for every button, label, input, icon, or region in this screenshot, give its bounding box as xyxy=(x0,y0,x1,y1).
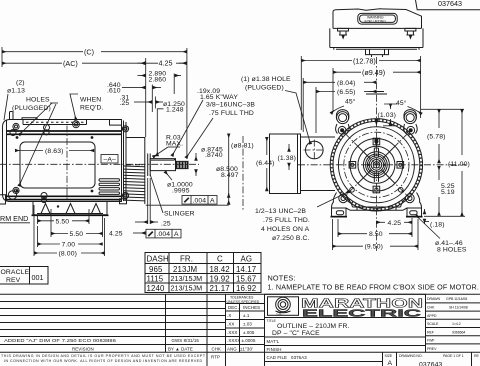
svg-text:THIS DRAWING IN DESIGN AND DET: THIS DRAWING IN DESIGN AND DETAIL IS OUR… xyxy=(1,354,206,358)
svg-text:(2): (2) xyxy=(16,80,25,87)
conduit box upper outline xyxy=(333,9,422,29)
svg-text:.004: .004 xyxy=(157,231,171,238)
037643 corner box xyxy=(416,0,480,10)
svg-text:IN CONNECTION WITH OUR WORK. A: IN CONNECTION WITH OUR WORK. ALL RIGHTS … xyxy=(4,359,203,363)
-A- datum xyxy=(101,155,118,164)
svg-text:1.248: 1.248 xyxy=(166,106,184,113)
svg-text:.X: .X xyxy=(227,313,231,318)
ext line shaft end xyxy=(186,48,188,158)
svg-text:SH 11/14/08: SH 11/14/08 xyxy=(449,306,468,310)
upper dark band xyxy=(7,130,122,132)
top step xyxy=(22,118,37,120)
(5.78) xyxy=(421,108,464,110)
(6.55) xyxy=(316,91,335,93)
svg-text:±1°30': ±1°30' xyxy=(240,347,253,352)
svg-text:FINISH: FINISH xyxy=(267,347,282,352)
svg-text:213/15JM: 213/15JM xyxy=(171,284,203,293)
svg-text:MAX.: MAX. xyxy=(166,141,183,148)
(9.49) xyxy=(333,71,361,73)
svg-text:45°: 45° xyxy=(396,99,407,107)
svg-text:.25: .25 xyxy=(161,221,171,228)
svg-text:15.67: 15.67 xyxy=(236,275,256,284)
revision rows xyxy=(0,302,226,345)
svg-text:±.03: ±.03 xyxy=(243,322,252,327)
svg-text:(11.00): (11.00) xyxy=(448,161,470,168)
svg-text:HOLES: HOLES xyxy=(26,97,50,104)
vent slots xyxy=(99,179,120,181)
oracle rev box xyxy=(0,267,48,285)
svg-text:2.860: 2.860 xyxy=(149,77,167,84)
svg-text:9366664: 9366664 xyxy=(452,330,465,334)
svg-text:ORACLE: ORACLE xyxy=(1,269,30,276)
dim .640/.610 xyxy=(122,87,137,89)
ear bottom-right xyxy=(405,194,414,203)
tapped hole squares xyxy=(349,138,404,193)
(8.04) xyxy=(303,81,335,83)
ear bottom-left xyxy=(339,194,348,203)
outer circle xyxy=(333,121,420,208)
4.25 xyxy=(376,221,385,223)
svg-text:.75 FULL THD: .75 FULL THD xyxy=(209,110,254,117)
svg-text:±.005: ±.005 xyxy=(243,330,255,335)
svg-text:1.65 K"WAY: 1.65 K"WAY xyxy=(200,94,238,101)
svg-text:NOTES:: NOTES: xyxy=(268,274,296,283)
center vertical arrowheads xyxy=(374,119,378,127)
svg-text:(6.55): (6.55) xyxy=(337,89,355,96)
8.50 xyxy=(338,233,367,235)
feature frame 2 xyxy=(146,229,181,238)
svg-text:4 HOLES ON A: 4 HOLES ON A xyxy=(261,226,310,233)
svg-text:CHK: CHK xyxy=(212,347,222,352)
title rows xyxy=(265,318,426,346)
keyway lines on shaft xyxy=(151,159,175,161)
svg-text:C: C xyxy=(217,255,223,264)
ear top-left xyxy=(337,112,349,124)
(9.50) xyxy=(333,245,364,247)
keyway slot top xyxy=(374,148,378,157)
svg-text:A: A xyxy=(388,360,393,366)
svg-text:3/8–16UNC–3B: 3/8–16UNC–3B xyxy=(206,102,255,109)
svg-text:45°: 45° xyxy=(345,98,356,106)
bolt top-right xyxy=(122,126,128,132)
svg-text:.75 FULL THD.: .75 FULL THD. xyxy=(263,217,310,224)
svg-text:5.50: 5.50 xyxy=(56,218,70,225)
svg-text:19.92: 19.92 xyxy=(210,275,230,284)
(1.38) xyxy=(288,144,290,152)
serration ring xyxy=(332,120,422,210)
ext left edge xyxy=(1,47,3,67)
center cross tiny xyxy=(373,161,380,168)
svg-text:.8740: .8740 xyxy=(205,152,223,159)
shaft end xyxy=(187,161,189,168)
top pad xyxy=(366,92,387,95)
svg-text:DP – "C" FACE: DP – "C" FACE xyxy=(272,330,320,337)
svg-text:965: 965 xyxy=(149,265,163,274)
bolt right xyxy=(405,28,416,35)
svg-text:DEC.: DEC. xyxy=(228,305,239,310)
svg-text:GWS 8/31/15: GWS 8/31/15 xyxy=(172,338,200,343)
svg-text:(1.03): (1.03) xyxy=(378,112,396,119)
(8.63) dim xyxy=(15,150,43,152)
foot triangles xyxy=(41,204,50,214)
svg-text:(PLUGGED): (PLUGGED) xyxy=(12,105,51,112)
5.25/5.19 xyxy=(438,166,440,180)
svg-text:(6.44): (6.44) xyxy=(256,160,274,167)
svg-text:(8.63): (8.63) xyxy=(45,148,63,155)
bolt bottom-left xyxy=(13,187,19,193)
dim 4.25 shaft ext xyxy=(138,62,146,64)
base plate xyxy=(33,202,107,215)
svg-text:A: A xyxy=(174,231,179,238)
svg-text:REQ'D.: REQ'D. xyxy=(80,105,104,112)
svg-text:SCALE: SCALE xyxy=(427,322,439,326)
svg-text:REVISION: REVISION xyxy=(72,347,94,352)
svg-text:CAD FILE 0376A3: CAD FILE 0376A3 xyxy=(267,355,308,360)
svg-text:CIC: CIC xyxy=(277,312,283,316)
centerline vertical xyxy=(66,126,68,202)
flange circle AK xyxy=(338,127,414,203)
shaft large dia xyxy=(150,159,175,171)
louver band xyxy=(124,166,145,201)
svg-text:DRAWN: DRAWN xyxy=(427,297,440,301)
emblem xyxy=(268,297,299,316)
svg-text:(ø8.81): (ø8.81) xyxy=(231,143,254,150)
svg-text:16.92: 16.92 xyxy=(236,284,256,293)
svg-text:(.18): (.18) xyxy=(430,222,445,229)
shaft small dia with threads xyxy=(176,161,189,168)
svg-text:4.25: 4.25 xyxy=(388,220,402,227)
svg-text:±.1: ±.1 xyxy=(243,313,250,318)
foot slots xyxy=(336,211,343,215)
svg-text:1115: 1115 xyxy=(147,275,164,284)
(6.44) xyxy=(266,137,268,155)
corner dots xyxy=(16,136,19,139)
svg-text:4.25: 4.25 xyxy=(109,231,123,238)
svg-text:213/15JM: 213/15JM xyxy=(171,274,203,283)
small side dots xyxy=(368,164,370,166)
(11.00) xyxy=(461,109,463,155)
bolt circle dash xyxy=(344,132,409,197)
dim 2.890/2.860 xyxy=(138,75,146,77)
svg-text:RM END: RM END xyxy=(0,214,28,223)
svg-text:ANG: ANG xyxy=(227,347,237,352)
svg-text:14.17: 14.17 xyxy=(236,265,256,274)
svg-text:PREV: PREV xyxy=(427,347,437,351)
svg-text:AG: AG xyxy=(241,255,253,264)
ear top-right xyxy=(404,112,416,124)
radial spokes 45deg xyxy=(358,146,395,183)
svg-text:FWF: FWF xyxy=(427,339,435,343)
svg-text:REF: REF xyxy=(427,330,435,334)
svg-text:FOR LIFTING: FOR LIFTING xyxy=(365,19,387,23)
slinger xyxy=(147,154,149,177)
svg-text:FR.: FR. xyxy=(180,255,193,264)
svg-text:7.00: 7.00 xyxy=(62,242,76,249)
svg-text:RE: RE xyxy=(474,354,479,358)
svg-text:±.0005: ±.0005 xyxy=(242,338,256,343)
svg-text:.XX: .XX xyxy=(227,322,234,327)
tolerance block xyxy=(264,294,266,366)
left bracket plate xyxy=(270,134,301,194)
svg-text:DASH: DASH xyxy=(147,255,170,264)
svg-text:4.25: 4.25 xyxy=(159,58,173,67)
centerline horizontal xyxy=(0,163,199,165)
svg-text:A: A xyxy=(210,197,215,204)
top border xyxy=(0,293,480,295)
svg-text:(9.50): (9.50) xyxy=(365,244,383,251)
logo box xyxy=(265,294,426,317)
svg-text:5.50: 5.50 xyxy=(70,231,84,238)
bolt bottom-right xyxy=(122,192,128,198)
svg-text:PAGE 1 OF 1: PAGE 1 OF 1 xyxy=(443,354,464,358)
ext keyway end xyxy=(173,74,175,95)
svg-text:CHK: CHK xyxy=(427,306,435,310)
nameplate panel xyxy=(20,142,95,188)
svg-text:8 HOLES: 8 HOLES xyxy=(437,247,467,254)
svg-text:.9995: .9995 xyxy=(172,188,190,195)
horizontal ref line under shaft xyxy=(146,204,229,206)
svg-text:.XXX: .XXX xyxy=(227,330,237,335)
right column xyxy=(425,294,427,352)
keyway slot bottom xyxy=(374,173,378,183)
(.18) xyxy=(424,209,426,214)
warning label xyxy=(358,13,397,24)
left end cap line xyxy=(6,120,8,201)
svg-text:(C): (C) xyxy=(84,47,94,56)
svg-text:1. NAMEPLATE TO BE READ FROM C: 1. NAMEPLATE TO BE READ FROM C'BOX SIDE … xyxy=(268,283,480,292)
svg-text:RTP: RTP xyxy=(211,355,220,360)
svg-text:MAT'L: MAT'L xyxy=(267,339,280,344)
svg-text:TITLE: TITLE xyxy=(267,319,277,323)
dim (C) xyxy=(2,51,83,53)
end bracket verticals xyxy=(123,121,125,202)
svg-text:ø7.250 B.C.: ø7.250 B.C. xyxy=(272,235,310,242)
bottom tab xyxy=(366,49,389,54)
svg-text:.XXXX: .XXXX xyxy=(227,338,240,343)
svg-text:(8.04): (8.04) xyxy=(337,80,355,87)
inner circles xyxy=(350,139,403,192)
svg-text:(AC): (AC) xyxy=(63,59,78,68)
svg-text:–A–: –A– xyxy=(104,157,117,164)
svg-text:SLINGER: SLINGER xyxy=(164,211,195,218)
top stub boss xyxy=(10,112,14,120)
cbox mid line xyxy=(333,27,422,29)
svg-text:OUTLINE – 210JM FR.: OUTLINE – 210JM FR. xyxy=(277,323,350,330)
svg-text:BY ▲ DATE: BY ▲ DATE xyxy=(168,347,193,352)
svg-text:UNLESS SPECIFIED: UNLESS SPECIFIED xyxy=(227,300,260,304)
centerlines xyxy=(298,164,466,166)
svg-text:213JM: 213JM xyxy=(173,265,197,274)
svg-text:8.497: 8.497 xyxy=(221,172,239,179)
svg-text:(12.78): (12.78) xyxy=(353,56,376,65)
lower dark band xyxy=(7,195,122,197)
plugged hole on bracket xyxy=(306,141,324,159)
svg-text:1240: 1240 xyxy=(147,284,165,293)
svg-text:18.42: 18.42 xyxy=(210,265,230,274)
svg-text:ø1.13: ø1.13 xyxy=(7,88,25,95)
svg-text:DRAWING NO.: DRAWING NO. xyxy=(399,354,423,358)
bottom row xyxy=(383,352,472,366)
svg-text:REV: REV xyxy=(6,277,21,284)
svg-text:(PLUGGED): (PLUGGED) xyxy=(245,85,284,92)
svg-text:GPB 11/14/08: GPB 11/14/08 xyxy=(446,297,467,301)
svg-text:(8.00): (8.00) xyxy=(59,251,77,258)
face top/bottom edges xyxy=(126,137,145,139)
svg-text:ADDED "AJ" DIM OF 7.250 ECO 00: ADDED "AJ" DIM OF 7.250 ECO 0083886 xyxy=(4,338,117,343)
svg-text:.004: .004 xyxy=(193,197,207,204)
bolt top-center (when req'd hole) xyxy=(73,121,80,128)
feature frame 1 xyxy=(182,196,217,205)
motor body top xyxy=(330,28,423,47)
svg-text:(ø9.49): (ø9.49) xyxy=(362,68,385,77)
svg-text:21.17: 21.17 xyxy=(210,284,230,293)
base dims xyxy=(37,216,39,225)
svg-text:1=4.2: 1=4.2 xyxy=(452,322,461,326)
svg-text:037643: 037643 xyxy=(419,362,443,366)
ext line face top xyxy=(145,58,147,137)
svg-text:8.50: 8.50 xyxy=(369,231,383,238)
svg-text:WHEN: WHEN xyxy=(80,97,101,104)
svg-text:INCHES: INCHES xyxy=(243,305,260,310)
svg-text:1/2–13 UNC–2B: 1/2–13 UNC–2B xyxy=(255,208,306,215)
svg-text:(1) ø1.38 HOLE: (1) ø1.38 HOLE xyxy=(241,76,291,83)
dim (AC) xyxy=(2,62,62,64)
motor body outline xyxy=(3,120,122,202)
svg-text:037643: 037643 xyxy=(438,0,462,8)
bolt top-left xyxy=(13,123,19,129)
svg-text:SIZE: SIZE xyxy=(385,354,393,358)
feet xyxy=(332,193,422,209)
svg-text:(1.38): (1.38) xyxy=(278,155,296,162)
svg-text:APPD: APPD xyxy=(427,314,437,318)
(12.78) xyxy=(301,60,352,62)
svg-text:.25: .25 xyxy=(120,100,130,107)
svg-text:(5.78): (5.78) xyxy=(427,134,445,141)
svg-text:001: 001 xyxy=(32,273,44,282)
bolt left xyxy=(338,28,349,35)
svg-text:5.19: 5.19 xyxy=(441,189,455,196)
diag dash-dot X xyxy=(345,134,407,196)
left plugged hole (outside body) xyxy=(8,191,16,199)
